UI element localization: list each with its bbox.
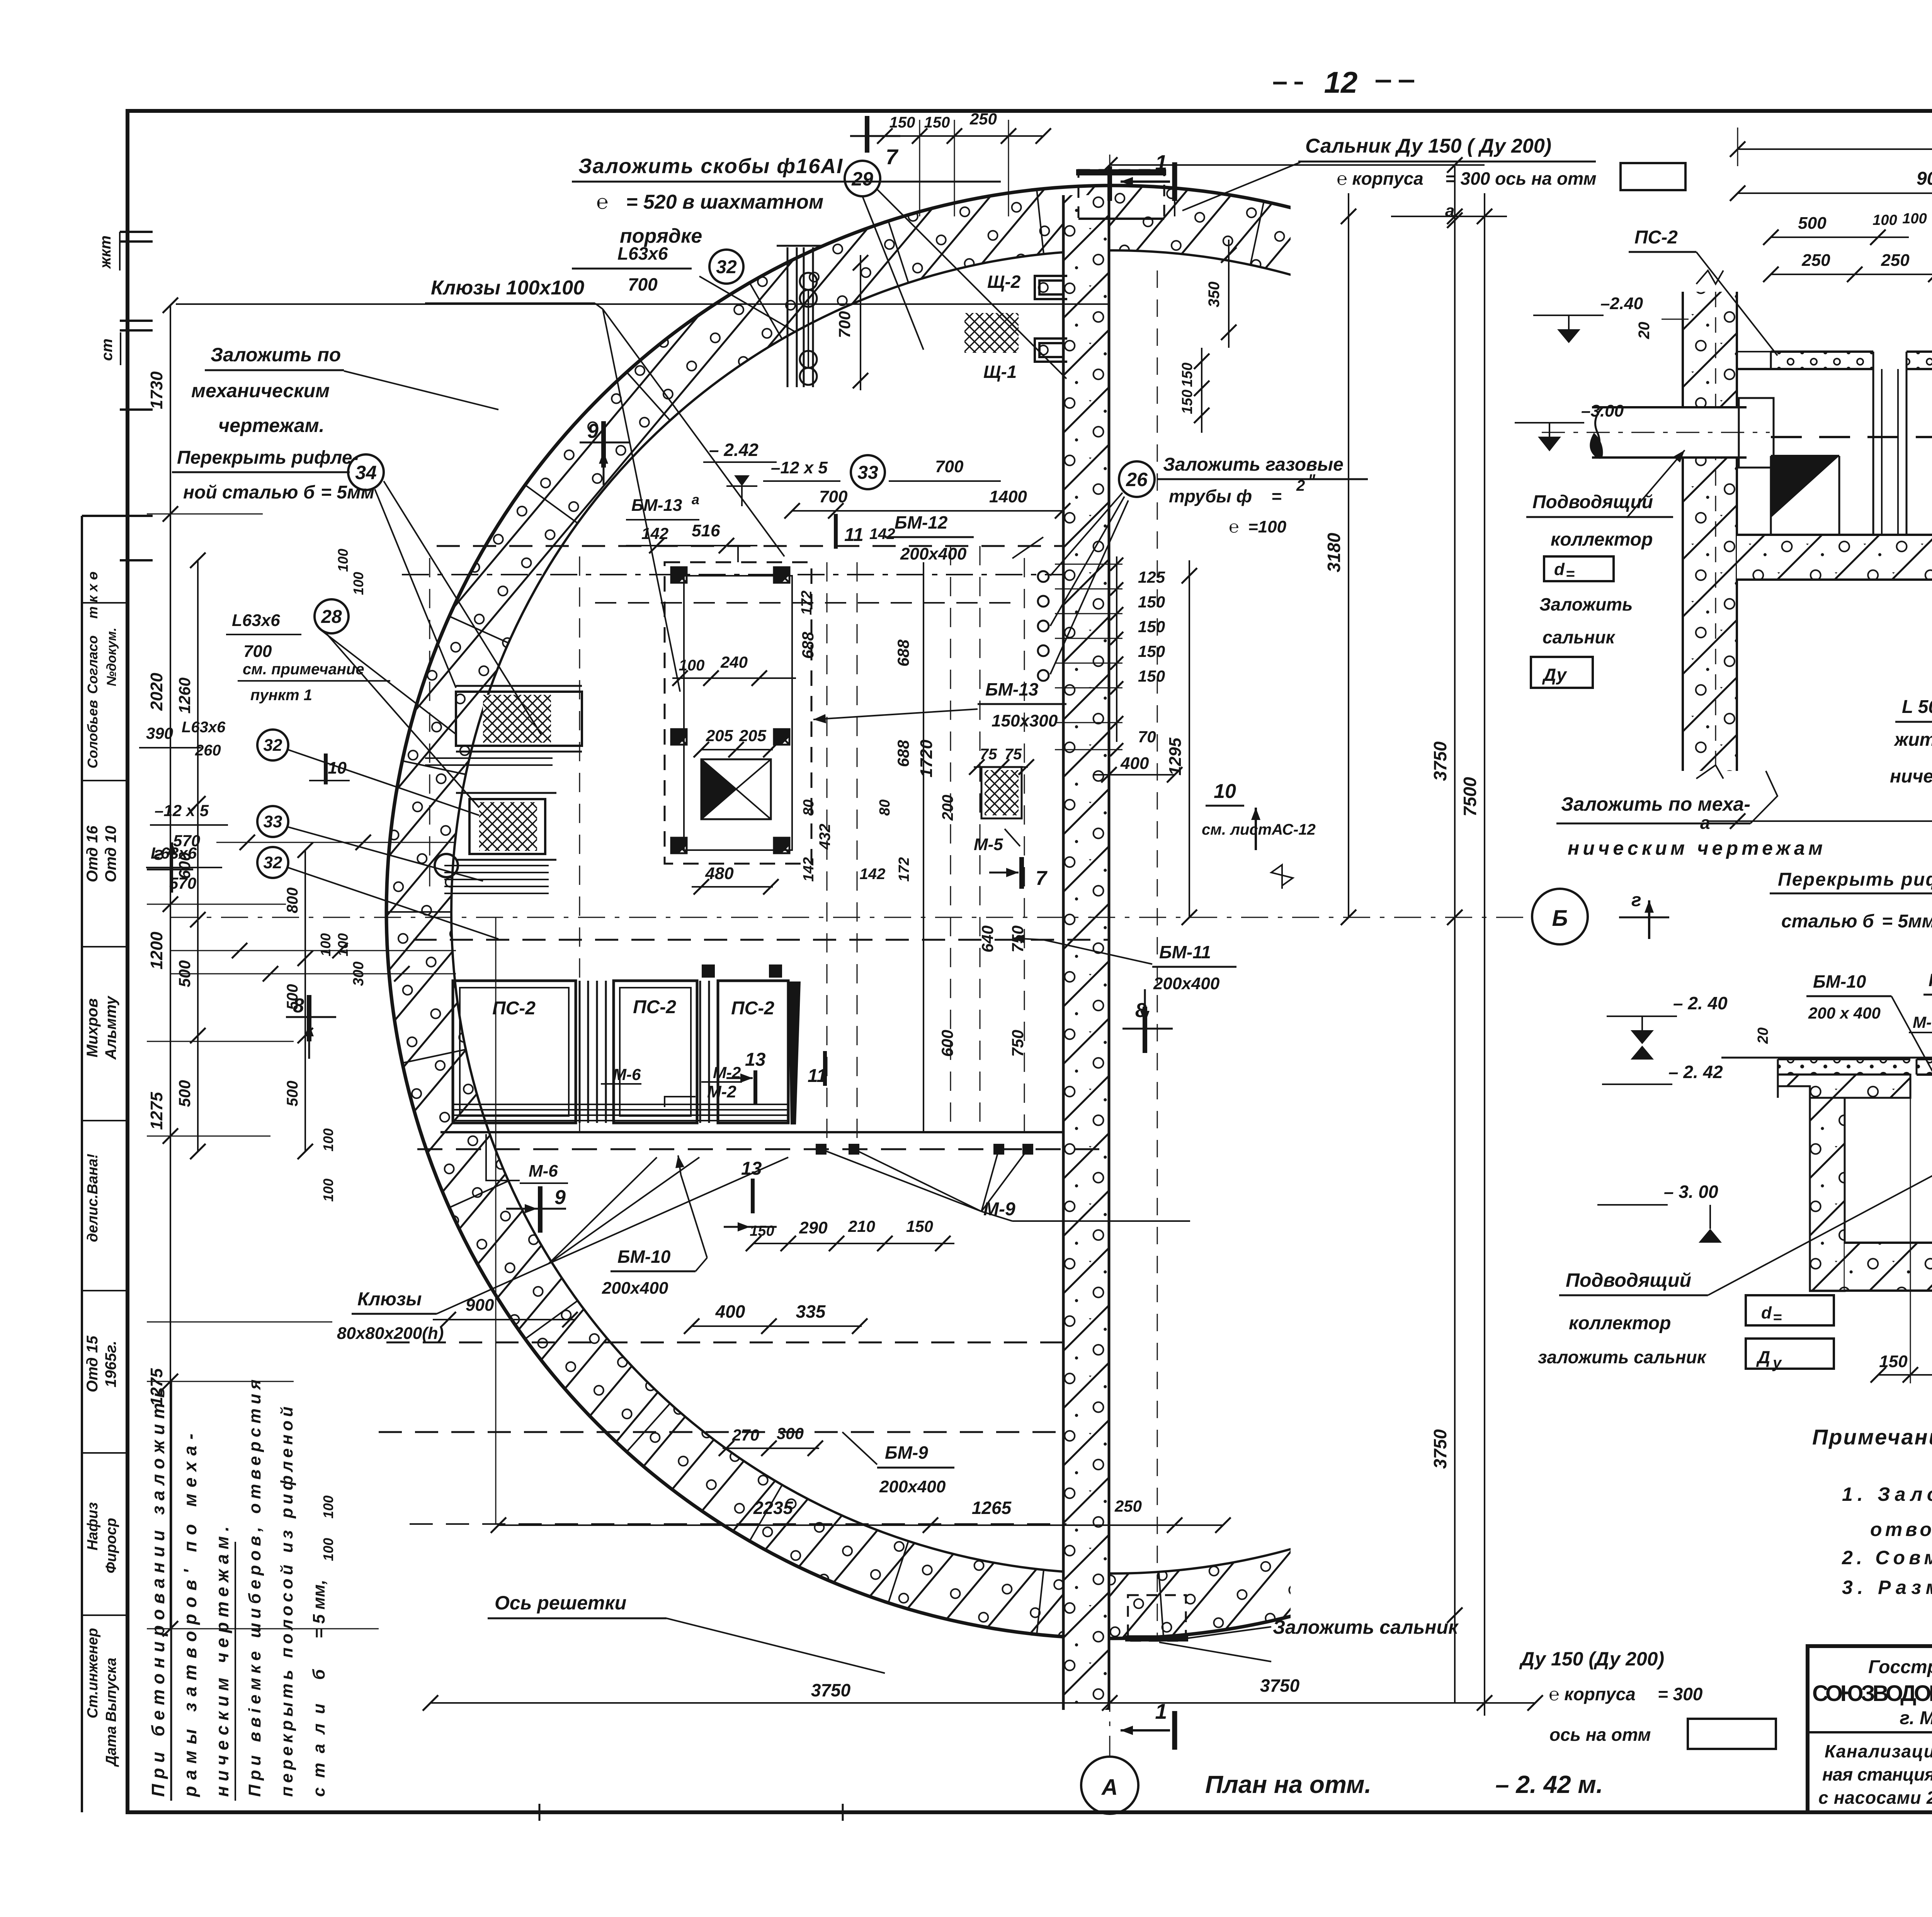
label: zalozhit gazovye: [1157, 454, 1368, 536]
svg-text:А: А: [1101, 1775, 1118, 1800]
leader from bottom gland: [1159, 1627, 1271, 1662]
axis B circle: [1532, 889, 1588, 944]
small dims 100 300 left: [318, 549, 367, 1561]
svg-text:Альмту: Альмту: [102, 995, 119, 1060]
svg-text:142: 142: [801, 857, 817, 881]
svg-text:БМ-12: БМ-12: [895, 512, 948, 532]
svg-text:390: 390: [146, 724, 173, 742]
panel PS-2 middle: [614, 981, 697, 1123]
svg-text:План на отм.: План на отм.: [1205, 1771, 1371, 1798]
svg-text:ПС-2: ПС-2: [1634, 227, 1678, 248]
plan interior verticals near wall: [1157, 166, 1175, 1638]
svg-text:М-6: М-6: [1913, 1013, 1932, 1031]
section 9-9 label BM-10: [1806, 971, 1932, 1136]
panel sill lines: [417, 1104, 1109, 1149]
svg-text:600: 600: [938, 1030, 956, 1057]
svg-text:=: =: [1566, 565, 1575, 582]
axis A circle: [1081, 1757, 1138, 1814]
pad central pyramid: [701, 759, 771, 819]
stamp column line: [81, 516, 83, 1812]
svg-text:БМ-10: БМ-10: [1813, 971, 1866, 992]
svg-text:1260: 1260: [175, 677, 194, 713]
label M-2 upper-mid: [701, 1063, 742, 1082]
section 8-8 level -3.00 left: [1515, 401, 1624, 451]
dims 400 335 row: [684, 1301, 867, 1334]
left outer dimension chain: [147, 298, 1110, 1636]
gas pipe holes: [1038, 571, 1049, 681]
svg-text:Ось решетки: Ось решетки: [495, 1592, 626, 1614]
svg-text:№докум.: №докум.: [104, 628, 119, 686]
plan: bottom gland opening: [1125, 1595, 1188, 1641]
svg-text:150: 150: [1879, 1352, 1908, 1371]
svg-text:200х400: 200х400: [900, 544, 967, 563]
svg-text:270: 270: [732, 1426, 759, 1444]
label M-6 lower: [486, 1134, 568, 1183]
svg-text:3750: 3750: [1430, 741, 1450, 781]
svg-text:210: 210: [848, 1217, 875, 1235]
svg-text:100: 100: [1902, 211, 1927, 227]
svg-text:– 2.42: – 2.42: [709, 440, 759, 460]
svg-text:– 2. 40: – 2. 40: [1673, 993, 1728, 1013]
label Klyuzy 80x80x200: [337, 1157, 788, 1343]
svg-text:9: 9: [587, 420, 599, 442]
section cut 9 bottom: [506, 1186, 566, 1233]
svg-text:L 50х5 запо-: L 50х5 запо-: [1902, 697, 1932, 717]
top dim line to a: [1102, 157, 1507, 224]
svg-text:Канализационная насос-: Канализационная насос-: [1825, 1741, 1932, 1761]
svg-text:d: d: [1761, 1303, 1772, 1322]
svg-text:150: 150: [1179, 362, 1196, 387]
svg-text:32: 32: [264, 736, 282, 755]
pad lower studs: [702, 964, 782, 978]
svg-text:172: 172: [799, 590, 815, 615]
section 8-8 dim 250 250: [1763, 251, 1932, 282]
svg-text:11: 11: [808, 1066, 827, 1086]
left inner dimension chain: [175, 553, 206, 1159]
svg-text:делис.Вана!: делис.Вана!: [85, 1154, 101, 1242]
svg-text:℮ корпуса: ℮ корпуса: [1549, 1684, 1636, 1704]
label L63x6 570 circle 32: [146, 844, 498, 939]
label zalozhit po mekh middle: [1556, 771, 1823, 859]
svg-text:80: 80: [877, 799, 893, 816]
svg-text:600: 600: [175, 852, 194, 879]
axis A vertical centerline: [1109, 155, 1111, 1756]
vertical dashed pad lines: [430, 546, 1024, 1149]
section 9-9 dim 80 20 rotated: [1755, 1027, 1932, 1086]
dims 700 1400 700 top: [784, 457, 1070, 519]
svg-text:1965г.: 1965г.: [102, 1341, 119, 1388]
svg-text:ная станция на 2 агрегата: ная станция на 2 агрегата: [1822, 1764, 1932, 1784]
svg-text:100: 100: [679, 657, 705, 674]
section 8-8 top slab: [1737, 352, 1932, 369]
svg-text:250: 250: [1881, 251, 1910, 270]
svg-text:ПС-2: ПС-2: [731, 998, 774, 1019]
svg-text:150: 150: [889, 114, 915, 131]
svg-text:150: 150: [924, 114, 950, 131]
svg-text:Перекрыть рифленой: Перекрыть рифленой: [1778, 869, 1932, 890]
anchor studs: [816, 1144, 1033, 1155]
section 9-9 floor: [1810, 1098, 1932, 1291]
section 9-9 top slab line: [1721, 1058, 1932, 1075]
svg-text:М-5: М-5: [974, 835, 1003, 854]
section 9-9 level -2.42 left: [1602, 1046, 1723, 1084]
svg-text:т к х ө: т к х ө: [85, 572, 100, 619]
svg-text:– 3. 00: – 3. 00: [1664, 1182, 1718, 1202]
pad M-5 small: [974, 767, 1022, 854]
svg-text:2235: 2235: [753, 1498, 794, 1518]
svg-text:БМ-13: БМ-13: [985, 679, 1039, 699]
leader circle 34: [344, 371, 541, 734]
title block left cell: [1808, 1657, 1932, 1808]
dims 150 290 210 150 row: [746, 1217, 954, 1251]
svg-text:640: 640: [978, 925, 997, 953]
svg-text:сталью б: сталью б: [1781, 911, 1874, 932]
gas pipe dim leaders: [1049, 577, 1122, 675]
svg-text:г: г: [154, 844, 164, 864]
shield bracket upper: [1035, 276, 1067, 299]
svg-text:L63х6: L63х6: [232, 611, 280, 630]
svg-text:34: 34: [355, 462, 377, 483]
svg-text:Клюзы: Клюзы: [357, 1289, 422, 1310]
svg-text:7: 7: [1036, 867, 1048, 890]
section 8-8 pipe through wall: [1542, 398, 1774, 468]
svg-text:28: 28: [321, 607, 342, 627]
label BM-13 150x300: [811, 679, 1066, 730]
svg-text:688: 688: [894, 740, 912, 767]
dash-dot line upper: [402, 574, 1063, 575]
svg-text:=: =: [1271, 486, 1282, 506]
svg-text:100: 100: [320, 1495, 336, 1519]
svg-text:М-2: М-2: [707, 1082, 736, 1101]
section 8-8 floor left part: [1737, 535, 1932, 580]
svg-text:1275: 1275: [147, 1368, 166, 1406]
svg-text:– 2. 42 м.: – 2. 42 м.: [1495, 1771, 1603, 1798]
section cut 1 top: [1110, 150, 1175, 201]
svg-text:7: 7: [886, 145, 899, 169]
section 8-8 channel walls: [1873, 352, 1906, 535]
svg-text:300: 300: [777, 1424, 804, 1442]
dim 900 left: [433, 1296, 578, 1327]
section 9-9 level -3.00 left: [1597, 1182, 1722, 1243]
label 1720 near pads: [923, 731, 924, 788]
svg-text:700: 700: [835, 311, 854, 338]
label L63x6 700 left circle 28: [226, 599, 479, 808]
section 8-8 bottom dim 3500: [1708, 796, 1932, 829]
sluice gate frame lower: [456, 793, 556, 860]
svg-text:29: 29: [851, 168, 873, 190]
svg-text:Фироср: Фироср: [103, 1518, 119, 1573]
svg-text:100: 100: [320, 1128, 336, 1152]
section cut 13 bottom: [724, 1158, 777, 1232]
svg-text:500: 500: [284, 984, 301, 1010]
svg-text:ной сталью б: ной сталью б: [183, 482, 315, 503]
shield bracket lower: [1035, 338, 1067, 362]
plan: circular wall ring: [386, 185, 1839, 1639]
svg-text:2: 2: [1296, 477, 1305, 494]
plan: straight wall strip: [1063, 195, 1109, 1710]
svg-text:700: 700: [935, 457, 964, 476]
svg-text:пункт 1: пункт 1: [250, 687, 312, 704]
svg-text:250: 250: [1801, 251, 1830, 270]
rotated dims 150 150 350 right of wall: [1179, 240, 1236, 433]
svg-text:–2.40: –2.40: [1600, 294, 1643, 313]
svg-text:1200: 1200: [147, 932, 166, 970]
svg-text:у: у: [1772, 1354, 1782, 1371]
title block outer box: [1808, 1646, 1932, 1812]
label Plan na otm: [1205, 1771, 1603, 1798]
gas hole dimension chain: [1055, 556, 1182, 782]
svg-text:32: 32: [264, 853, 282, 872]
label zalozhit salnik bottom: [1273, 1565, 1776, 1749]
svg-text:260: 260: [195, 742, 221, 759]
section cut 1 bottom: [1121, 1699, 1175, 1750]
top dims 150 150 250: [877, 110, 1051, 216]
axis g right: [1619, 890, 1669, 939]
break symbol: [1271, 865, 1293, 917]
svg-text:Михров: Михров: [84, 998, 101, 1057]
label M-2: [665, 1082, 736, 1107]
section 8-8 dim 500 100 100: [1763, 211, 1927, 245]
svg-text:Сальник Ду 150 ( Ду 200): Сальник Ду 150 ( Ду 200): [1305, 135, 1551, 157]
label BM-12 200x400: [869, 512, 1043, 563]
svg-text:ось на отм: ось на отм: [1549, 1725, 1651, 1745]
rotated note: pri betonirovanii: [148, 1379, 328, 1801]
svg-text:3750: 3750: [811, 1680, 851, 1700]
section cut 8 right: [1122, 989, 1173, 1053]
svg-text:= 520 в шахматном: = 520 в шахматном: [626, 191, 823, 213]
svg-text:26: 26: [1126, 469, 1148, 490]
svg-text:70: 70: [1138, 728, 1156, 746]
svg-text:500: 500: [1798, 214, 1827, 233]
shield mesh box: [964, 313, 1019, 353]
svg-text:=100: =100: [1248, 517, 1287, 536]
svg-text:1400: 1400: [989, 487, 1027, 506]
section cut 7 top: [850, 116, 900, 169]
leader circle 32 top: [709, 250, 743, 284]
pump pad dashed outline: [665, 562, 811, 864]
svg-text:коллектор: коллектор: [1569, 1313, 1671, 1334]
svg-text:20: 20: [1755, 1027, 1771, 1044]
svg-text:200 х 400: 200 х 400: [1808, 1004, 1881, 1022]
svg-text:= 5мм: = 5мм: [321, 482, 374, 503]
svg-text:Клюзы 100х100: Клюзы 100х100: [431, 277, 584, 299]
section cut 11 marker: [836, 514, 864, 549]
svg-text:сальник: сальник: [1543, 627, 1616, 647]
sluice gate frame upper: [456, 686, 582, 752]
svg-text:ническим чертежам: ническим чертежам: [1890, 766, 1932, 787]
svg-text:Нафиз: Нафиз: [85, 1502, 101, 1551]
svg-text:– 2. 42: – 2. 42: [1668, 1062, 1723, 1082]
section 8-8 left pipe labels: [1526, 450, 1685, 688]
svg-text:см. листАС-12: см. листАС-12: [1202, 821, 1316, 838]
section 9-9 left ledge: [1778, 1059, 1910, 1098]
svg-text:=: =: [1773, 1309, 1782, 1326]
label BM-9 200x400: [842, 1432, 954, 1496]
svg-text:250: 250: [1114, 1497, 1142, 1515]
small circle opening: [435, 854, 458, 877]
svg-text:1: 1: [1155, 150, 1167, 175]
svg-text:150: 150: [750, 1223, 774, 1239]
label BM-10 200x400 plan: [602, 1155, 707, 1298]
svg-text:Заложить: Заложить: [1539, 594, 1633, 614]
svg-text:Заложить сальник: Заложить сальник: [1273, 1616, 1459, 1638]
svg-text:БМ-11: БМ-11: [1159, 942, 1211, 962]
svg-text:13: 13: [745, 1050, 766, 1070]
svg-text:100: 100: [335, 933, 351, 956]
svg-text:205: 205: [706, 726, 733, 745]
dashed line below panels 2: [386, 1342, 1063, 1344]
svg-text:Согласо: Согласо: [85, 635, 100, 694]
svg-text:172: 172: [896, 857, 912, 881]
section 8-8 left wall: [1683, 270, 1737, 779]
svg-text:℮: ℮: [596, 191, 608, 213]
svg-text:М-6: М-6: [613, 1065, 641, 1084]
svg-text:33: 33: [857, 463, 878, 483]
svg-text:Отд 15: Отд 15: [84, 1335, 101, 1392]
svg-text:100: 100: [320, 1538, 336, 1561]
svg-text:3750: 3750: [1430, 1429, 1450, 1469]
svg-text:℮: ℮: [1229, 517, 1239, 536]
svg-text:Ду: Ду: [1542, 665, 1567, 685]
svg-text:= 300: = 300: [1658, 1684, 1703, 1704]
svg-text:Подводящий: Подводящий: [1566, 1269, 1691, 1291]
svg-text:142: 142: [869, 526, 895, 543]
svg-text:жить по меха-: жить по меха-: [1893, 730, 1932, 750]
svg-text:20: 20: [1636, 322, 1653, 340]
svg-text:d: d: [1554, 560, 1565, 579]
svg-text:г: г: [1631, 890, 1641, 910]
dims 480 142 pad bottom: [692, 864, 885, 895]
svg-text:100: 100: [1872, 212, 1897, 228]
label salnik top: [1182, 135, 1685, 211]
svg-text:БМ-13: БМ-13: [631, 496, 682, 515]
label Os reshetki: [488, 1592, 885, 1673]
svg-text:1730: 1730: [147, 371, 166, 409]
svg-text:Заложить газовые: Заложить газовые: [1163, 454, 1344, 475]
leader circle 26: [1050, 461, 1155, 674]
svg-text:= 5мм: = 5мм: [1882, 911, 1932, 932]
svg-text:150: 150: [906, 1217, 933, 1235]
svg-text:142: 142: [860, 866, 886, 883]
dims 205 205: [694, 726, 779, 757]
svg-text:БМ-10: БМ-10: [617, 1247, 671, 1267]
svg-text:СОЮЗВОДОКАНАЛПРОЕКТ: СОЮЗВОДОКАНАЛПРОЕКТ: [1812, 1681, 1932, 1706]
svg-text:3750: 3750: [1260, 1675, 1300, 1696]
svg-text:240: 240: [720, 653, 748, 671]
dim 390: [139, 724, 201, 748]
section 8-8 dim 900: [1730, 168, 1932, 201]
section cut 8 left: [286, 995, 336, 1059]
svg-text:БМ-9: БМ-9: [885, 1442, 928, 1463]
section 9-9 left pipe labels: [1538, 1144, 1932, 1371]
svg-text:перекрыть полосой из рифлен: перекрыть полосой из рифленой: [277, 1407, 296, 1797]
svg-text:32: 32: [716, 257, 737, 277]
ladder rails: [777, 246, 823, 387]
rotated dim 700 ladder: [835, 255, 868, 390]
leader M-9: [821, 1149, 1190, 1221]
axis g left: [147, 842, 193, 893]
svg-text:432: 432: [816, 824, 833, 850]
svg-text:200х400: 200х400: [602, 1279, 668, 1298]
panel PS-2 right: [718, 981, 788, 1123]
dims 75 75 M-5: [969, 746, 1034, 775]
svg-text:Щ-1: Щ-1: [983, 362, 1017, 382]
svg-text:жкт: жкт: [97, 235, 114, 269]
label -12x5 570 circle 33: [150, 801, 483, 881]
svg-text:7500: 7500: [1460, 777, 1480, 816]
svg-text:700: 700: [243, 642, 272, 661]
svg-text:с насосами 2½ НФ или 4НФ: с насосами 2½ НФ или 4НФ: [1818, 1788, 1932, 1808]
svg-text:200х400: 200х400: [1153, 974, 1220, 993]
svg-text:М-6: М-6: [529, 1162, 558, 1180]
axis B horizontal centerline: [170, 917, 1531, 918]
svg-text:Щ-2: Щ-2: [987, 272, 1021, 292]
ladder rungs: [800, 273, 817, 385]
section 9-9 label PS-2: [1923, 970, 1932, 1057]
svg-text:–3.00: –3.00: [1581, 401, 1624, 420]
label perekryt riflenoy 9-9: [1770, 869, 1932, 932]
label sm primechanie: [238, 661, 390, 704]
svg-text:Заложить скобы ф16АІ: Заложить скобы ф16АІ: [578, 155, 843, 178]
bottom border ticks: [539, 1804, 843, 1821]
svg-text:13: 13: [741, 1158, 762, 1179]
svg-text:100: 100: [318, 933, 333, 956]
vertical dim 3750 right: [1430, 166, 1463, 1703]
svg-text:516: 516: [692, 521, 720, 540]
label: zalozhit skoby: [572, 155, 1001, 247]
svg-text:80х80х200(h): 80х80х200(h): [337, 1324, 444, 1343]
svg-text:150: 150: [1138, 593, 1165, 611]
section 9-9 label M-6: [1909, 1013, 1932, 1059]
svg-text:500: 500: [175, 1080, 194, 1107]
panel divider double lines: [580, 981, 709, 1123]
section cut 9 top: [580, 420, 630, 485]
svg-text:Отд 16: Отд 16: [84, 825, 101, 882]
section 9-9 level -2.40 left: [1607, 993, 1728, 1044]
dashed pad boundary: [595, 602, 1020, 604]
svg-text:350: 350: [1206, 282, 1223, 308]
svg-text:150: 150: [1138, 667, 1165, 685]
stamp margin rotated labels: [82, 232, 128, 1767]
svg-text:250: 250: [969, 110, 997, 128]
svg-text:Госстрой СССР: Госстрой СССР: [1868, 1657, 1932, 1677]
svg-text:100: 100: [350, 572, 366, 595]
svg-text:200: 200: [939, 795, 956, 821]
svg-text:–12 х 5: –12 х 5: [771, 458, 828, 477]
svg-text:150: 150: [1179, 390, 1196, 414]
section 8-8 gate detail left: [1771, 456, 1839, 556]
section 9-9 bottom chain: [1871, 1098, 1932, 1383]
section 8-8 label L50x5: [1890, 561, 1932, 787]
svg-text:335: 335: [796, 1301, 826, 1322]
svg-text:Заложить по: Заложить по: [211, 344, 341, 366]
dashed beam line BM-12: [437, 545, 1063, 547]
section 9-9 left wall: [1810, 1098, 1845, 1291]
svg-text:9: 9: [554, 1186, 566, 1209]
svg-text:500: 500: [284, 1081, 301, 1107]
svg-text:= 300 ось на отм: = 300 ось на отм: [1445, 168, 1597, 189]
dark wedge gate: [788, 981, 801, 1124]
svg-text:Б: Б: [1552, 906, 1568, 931]
pad anchor squares: [671, 567, 789, 853]
svg-text:г. Москва: г. Москва: [1900, 1708, 1932, 1728]
svg-text:142: 142: [641, 524, 668, 543]
svg-text:Ст.инженер: Ст.инженер: [85, 1628, 101, 1718]
svg-text:ст: ст: [99, 338, 116, 361]
svg-text:Ду 150 (Ду 200): Ду 150 (Ду 200): [1519, 1648, 1664, 1670]
dims 270 300 bottom: [719, 1424, 823, 1456]
svg-text:При ввіемке шиберов, отверс: При ввіемке шиберов, отверстия: [245, 1379, 264, 1797]
